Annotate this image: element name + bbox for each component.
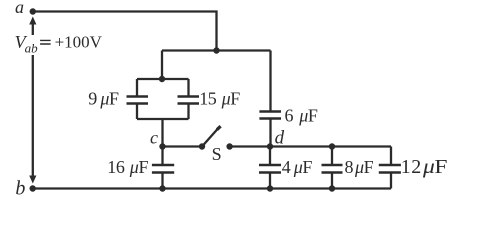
svg-text:μF: μF — [422, 156, 447, 178]
svg-text:μF: μF — [129, 157, 149, 177]
svg-text:12: 12 — [401, 156, 422, 178]
svg-text:9: 9 — [88, 88, 97, 108]
svg-text:6: 6 — [285, 105, 294, 125]
svg-text:a: a — [15, 0, 24, 17]
svg-text:b: b — [15, 178, 25, 200]
svg-text:c: c — [150, 128, 158, 148]
svg-text:μF: μF — [99, 88, 119, 108]
svg-text:4: 4 — [282, 157, 291, 177]
svg-text:μF: μF — [298, 105, 318, 125]
svg-text:+100V: +100V — [55, 33, 103, 52]
svg-text:d: d — [275, 127, 285, 148]
svg-text:μF: μF — [354, 157, 374, 177]
svg-text:S: S — [212, 144, 222, 164]
svg-text:8: 8 — [345, 157, 354, 177]
svg-text:16: 16 — [107, 157, 125, 177]
svg-text:15: 15 — [199, 88, 217, 108]
svg-text:μF: μF — [293, 157, 313, 177]
svg-text:ab: ab — [25, 41, 38, 56]
svg-text:μF: μF — [221, 88, 241, 108]
